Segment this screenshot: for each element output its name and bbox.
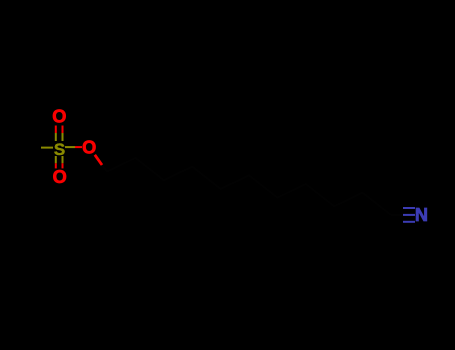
svg-text:S: S (54, 140, 65, 159)
svg-text:O: O (82, 137, 96, 157)
svg-text:O: O (52, 107, 66, 127)
svg-text:O: O (53, 167, 67, 187)
svg-text:N: N (415, 205, 428, 225)
